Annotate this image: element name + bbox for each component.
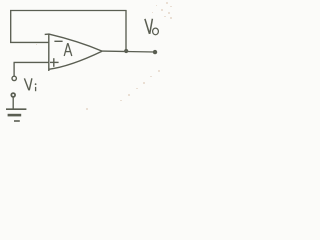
node: output terminal dot <box>153 50 157 54</box>
op-amp U1 (gain block A) triangle <box>45 34 102 71</box>
label: gain A inside op-amp <box>64 43 72 56</box>
wire: non-inverting input horizontal into op-amp <box>14 61 50 63</box>
wire: input branch vertical down to Vi terminal <box>13 62 15 76</box>
node: feedback/output junction dot <box>124 49 128 53</box>
node: lower terminal of Vi port <box>11 93 15 97</box>
wire: right feedback vertical from top wire down to output node <box>125 10 127 51</box>
label: Vi input voltage <box>24 78 36 91</box>
op-amp non-inverting pin marker (plus) <box>50 58 59 67</box>
wire: inverting input horizontal into op-amp <box>10 41 49 43</box>
wire: output from op-amp apex to output terminal <box>102 50 156 53</box>
op-amp inverting pin marker (minus) <box>54 40 62 42</box>
wire: top feedback horizontal from inverting-input branch to output branch <box>10 10 127 12</box>
ground <box>6 109 26 121</box>
wire: from lower terminal down to ground <box>12 97 14 109</box>
label: Vo output voltage <box>145 19 159 35</box>
wire: left feedback vertical down to inverting input <box>10 10 12 42</box>
node: input terminal (open circle, top of Vi port) <box>12 76 16 80</box>
